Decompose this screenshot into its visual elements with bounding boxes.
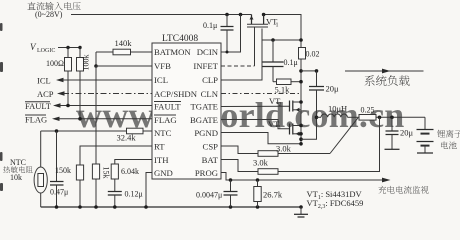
pin ITH — [154, 155, 169, 165]
svg-text:140k: 140k — [115, 38, 133, 48]
label charge current monitor 充电电流监视 — [378, 186, 428, 194]
svg-text:15k: 15k — [102, 167, 111, 179]
svg-text:3: 3 — [278, 125, 281, 131]
resistor 0.02 (input sense) — [299, 48, 320, 60]
pin DCIN — [197, 47, 219, 57]
wire CLN dashed — [221, 93, 299, 95]
node VT1 drain junction — [262, 13, 266, 17]
svg-text:10k: 10k — [10, 173, 22, 182]
svg-text:CLP: CLP — [202, 75, 218, 85]
pin PROG — [195, 168, 218, 178]
battery BT1 锂离子电池 — [417, 117, 460, 153]
svg-text:0.47μ: 0.47μ — [50, 188, 68, 197]
wire input node vertical — [300, 59, 302, 144]
capacitor 20u (output) — [385, 117, 414, 149]
svg-text:CLN: CLN — [201, 89, 219, 99]
svg-text:6.04k: 6.04k — [121, 167, 139, 176]
wire INFET gate lead — [221, 27, 255, 66]
resistor 150k (RT) — [55, 165, 84, 207]
svg-text:3.0k: 3.0k — [253, 158, 269, 168]
svg-text:BATMON: BATMON — [154, 47, 191, 57]
svg-text:FLAG: FLAG — [154, 115, 177, 125]
svg-text:NTC: NTC — [154, 128, 172, 138]
svg-text:0.1μ: 0.1μ — [203, 21, 217, 30]
svg-text:2: 2 — [279, 102, 282, 108]
svg-text:BGATE: BGATE — [190, 115, 218, 125]
transistor VT1 (P-MOSFET input FET) — [247, 15, 279, 29]
ground symbol — [294, 207, 308, 217]
pin CLP — [202, 75, 218, 85]
svg-text:0.12μ: 0.12μ — [125, 190, 143, 199]
svg-text:ITH: ITH — [154, 155, 169, 165]
inductor L1 10uH — [317, 104, 360, 118]
pin ICL — [154, 75, 168, 85]
label NTC thermistor 热敏电阻 10k — [3, 158, 32, 182]
capacitor 0.12u — [108, 190, 143, 208]
svg-text:150k: 150k — [55, 166, 71, 175]
pin FLAG — [154, 115, 177, 125]
svg-text:LOGIC: LOGIC — [37, 48, 55, 54]
resistor 0.25 (charge current sense) — [359, 106, 425, 121]
wire top input rail — [71, 15, 301, 48]
label DC input voltage 直流输入电压 — [27, 2, 80, 19]
svg-text:LTC4008: LTC4008 — [162, 34, 198, 44]
pin NTC — [154, 128, 172, 138]
svg-text:32.4k: 32.4k — [117, 133, 137, 143]
pin CSP — [203, 142, 219, 152]
svg-text:10μH: 10μH — [328, 104, 347, 114]
svg-text:INFET: INFET — [193, 61, 218, 71]
svg-text:FAULT: FAULT — [154, 102, 181, 112]
pin CLN — [201, 89, 219, 99]
svg-text:ACP: ACP — [37, 89, 54, 99]
pin FAULT — [154, 102, 181, 112]
wire ground rail — [41, 205, 303, 209]
svg-text:ICL: ICL — [37, 76, 51, 86]
transistor VT3 (bottom P-MOSFET) — [268, 119, 303, 136]
svg-text:NTC: NTC — [10, 158, 26, 167]
node input sense bottom — [299, 69, 318, 73]
wire ITH — [115, 160, 152, 165]
wire GND pin — [146, 173, 152, 208]
svg-text:PROG: PROG — [195, 168, 218, 178]
pin ACP/SHDN — [154, 89, 198, 99]
wire BAT with 3.0k — [221, 117, 380, 174]
svg-text:GND: GND — [154, 168, 173, 178]
svg-text:FAULT: FAULT — [25, 101, 52, 111]
svg-text:ACP/SHDN: ACP/SHDN — [154, 89, 198, 99]
svg-text:www.eeworld.com.cn: www.eeworld.com.cn — [76, 95, 405, 135]
wire CLP node line y40 — [221, 29, 303, 81]
svg-text:CSP: CSP — [203, 142, 219, 152]
svg-text:DCIN: DCIN — [197, 47, 219, 57]
resistor 100R pull-up — [46, 48, 72, 106]
svg-text:PGND: PGND — [194, 128, 218, 138]
pin GND — [154, 168, 173, 178]
resistor 6.04k (ITH) — [111, 164, 139, 192]
svg-text:VFB: VFB — [154, 61, 171, 71]
wire switch node to inductor — [299, 116, 318, 142]
resistor 140k (BATMON) — [96, 38, 152, 55]
svg-text:20μ: 20μ — [400, 128, 414, 138]
svg-text:26.7k: 26.7k — [263, 190, 283, 200]
svg-text:ICL: ICL — [154, 75, 168, 85]
pin BGATE — [190, 115, 218, 125]
wire ICL with arrow — [37, 76, 152, 86]
wire FAULT with arrow — [25, 101, 152, 111]
svg-text:100Ω: 100Ω — [46, 59, 64, 68]
capacitor 0.1u (DCIN bypass) — [203, 13, 234, 52]
capacitor 0.0047u (PROG) — [196, 180, 238, 207]
scan edge marks — [0, 23, 3, 191]
wire FLAG with arrow — [25, 114, 152, 124]
svg-text:0.25: 0.25 — [361, 106, 375, 115]
arrow to system load 系统负载 — [345, 69, 424, 86]
resistor 15k (VFB divider) — [92, 66, 110, 207]
pin BAT — [202, 155, 219, 165]
wire BGATE — [221, 120, 290, 129]
pin INFET — [193, 61, 218, 71]
IC U1 LTC4008 — [152, 34, 221, 179]
svg-text:0.02: 0.02 — [306, 50, 320, 59]
pin PGND — [194, 128, 218, 138]
svg-text:RT: RT — [154, 142, 165, 152]
capacitor 20u (input bulk) — [309, 71, 339, 117]
resistor 5.1k — [273, 79, 303, 95]
wire RT — [80, 146, 152, 165]
resistor 100k pull-up — [77, 48, 91, 119]
wire PGND — [221, 133, 303, 146]
thermistor RT1 — [34, 167, 47, 207]
svg-text:FLAG: FLAG — [25, 114, 47, 124]
note VT2,3: FDC6459 — [307, 198, 364, 210]
note VT1: Si4431DV — [307, 189, 363, 201]
wire ACP with arrow — [37, 89, 152, 99]
pin BATMON — [154, 47, 191, 57]
capacitor 0.1u (CLP filter) — [263, 40, 298, 82]
svg-text:0.1μ: 0.1μ — [284, 58, 298, 67]
pin RT — [154, 142, 165, 152]
transistor VT2 (top P-MOSFET) — [269, 96, 303, 112]
svg-text:20μ: 20μ — [326, 84, 340, 94]
resistor 32.4k (NTC series) — [117, 128, 144, 142]
node V_LOGIC — [30, 42, 82, 54]
wire PROG — [221, 173, 391, 183]
svg-text:100k: 100k — [82, 55, 91, 71]
svg-text:(0~28V): (0~28V) — [35, 10, 63, 19]
watermark www.eeworld.com.cn — [76, 95, 405, 135]
wire TGATE — [221, 105, 290, 107]
svg-text:BAT: BAT — [202, 155, 219, 165]
wire VFB — [94, 52, 152, 68]
wire DCIN — [221, 13, 242, 54]
svg-text:TGATE: TGATE — [190, 102, 218, 112]
svg-text:5.1k: 5.1k — [275, 85, 291, 95]
wire CSP with 3.0k — [221, 118, 358, 157]
wire NTC line — [41, 129, 152, 167]
pin TGATE — [190, 102, 218, 112]
svg-text:1: 1 — [276, 23, 279, 29]
resistor 26.7k (PROG) — [254, 180, 283, 207]
pin VFB — [154, 61, 171, 71]
capacitor 0.47u — [50, 131, 68, 207]
svg-text:0.0047μ: 0.0047μ — [196, 191, 222, 200]
svg-text:3.0k: 3.0k — [276, 144, 292, 154]
